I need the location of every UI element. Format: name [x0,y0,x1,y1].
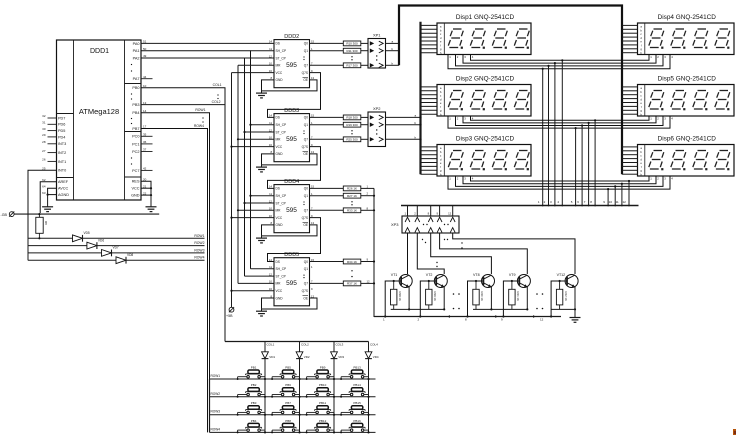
svg-text:ROW2: ROW2 [194,241,204,245]
svg-text:VD4: VD4 [373,355,379,359]
wire base of VT2 to drive rail [419,281,436,318]
wire emitter line VT8-VT9 [473,308,527,310]
svg-text:16: 16 [269,287,273,291]
diode VD8 on ROW4 sense line [28,253,133,264]
svg-text:ROW1: ROW1 [194,234,204,238]
svg-text:ST_CP: ST_CP [276,130,286,134]
resistor R10 300 [310,41,369,46]
svg-text:PB4: PB4 [132,111,139,115]
button PB10 [306,383,336,398]
wire OE pin of DDD2 to ground [262,80,318,91]
svg-text:PB7: PB7 [132,127,139,131]
svg-text:PD5: PD5 [58,129,65,133]
svg-text:VCC: VCC [276,216,283,220]
svg-text:PD7: PD7 [58,116,65,120]
wire AVCC and AGND to ground [47,188,57,196]
svg-text:GND: GND [276,78,284,82]
wire Q7S of DDD4 to DS of DDD5 [268,218,321,262]
wire PB4 ROW1 down to keypad [141,108,210,379]
svg-text:Q0: Q0 [304,42,308,46]
pin names DDD1 left (PD7-INT0, AREF, AVCC, AGND) [42,114,69,197]
shift register DDD5 74HC595 [269,252,315,306]
svg-text:32: 32 [42,114,46,118]
wire GND pin of DDD5 to ground [262,298,275,309]
battery rail -GB [14,213,159,215]
svg-text:12: 12 [269,199,273,203]
svg-text:VT8: VT8 [473,273,480,277]
svg-text:PC2: PC2 [132,150,139,154]
svg-text:R38 1K: R38 1K [398,292,402,301]
svg-text:AVCC: AVCC [58,187,69,191]
svg-text:Q7S: Q7S [302,145,308,149]
svg-text:AREF: AREF [58,180,69,184]
display Disp2 GNQ-2541CD [421,76,532,121]
resistor R19 300 [310,122,369,127]
pin labels XP2 outputs [415,114,417,140]
wire emitter of VT9 [526,287,528,311]
wires digit bus to XP3 top pins [404,206,452,217]
svg-text:COL2: COL2 [301,343,309,347]
button PB16 [340,419,370,434]
button PB9 [306,365,336,380]
keypad row feed lines [210,374,376,432]
svg-text:16: 16 [269,69,273,73]
svg-text:COL1: COL1 [267,343,275,347]
keypad column COL4 with diode VD4 [365,342,379,433]
digit drive rail under transistors [374,315,561,321]
svg-text:COL1: COL1 [213,83,222,87]
ground under DDD5 [256,309,267,316]
svg-text:16: 16 [269,214,273,218]
svg-text:PB6: PB6 [285,383,291,387]
resistor R34 1K [310,258,375,264]
svg-text:SH_CP: SH_CP [276,267,287,271]
svg-text:INT3: INT3 [58,142,66,146]
svg-text:PB11: PB11 [319,401,326,405]
svg-text:COL2: COL2 [212,100,221,104]
svg-text:-GB: -GB [1,213,8,217]
svg-text:R19 300: R19 300 [346,123,358,127]
rail MR to shift registers [237,65,274,283]
svg-text:PB3: PB3 [132,103,139,107]
rail +5V to shift register VCC pins [230,73,274,308]
svg-text:R27 1K: R27 1K [347,194,357,198]
button PB15 [340,401,370,416]
svg-text:Disp4 GNQ-2541CD: Disp4 GNQ-2541CD [658,14,717,21]
svg-text:595: 595 [286,280,297,287]
resistor R26 1K [310,184,375,190]
svg-text:PB1: PB1 [251,365,257,369]
svg-text:595: 595 [286,62,297,69]
svg-text:PB5: PB5 [285,365,291,369]
svg-text:Q7: Q7 [304,138,308,142]
button PB8 [271,419,301,434]
svg-text:VCC: VCC [276,145,283,149]
svg-text:PB4: PB4 [251,419,257,423]
svg-text:R11 300: R11 300 [346,49,357,53]
svg-text:PB0: PB0 [132,86,139,90]
svg-text:PB13: PB13 [353,365,361,369]
svg-text:ATMega128: ATMega128 [79,107,119,116]
svg-text:GND: GND [276,223,284,227]
shift register DDD3 74HC595 [269,108,315,162]
svg-text:R39 1K: R39 1K [433,292,437,301]
keypad column bus from COL1 [225,341,369,343]
shift register DDD2 74HC595 [269,34,315,88]
svg-text:SH_CP: SH_CP [276,49,287,53]
svg-text:595: 595 [286,207,297,214]
svg-text:GND: GND [131,194,140,198]
svg-text:SH_CP: SH_CP [276,194,287,198]
svg-text:10: 10 [609,200,613,204]
svg-text:31: 31 [42,121,46,125]
svg-text:Disp6 GNQ-2541CD: Disp6 GNQ-2541CD [658,136,717,143]
svg-text:Disp2 GNQ-2541CD: Disp2 GNQ-2541CD [456,76,515,83]
svg-text:10: 10 [269,62,273,66]
svg-text:PB9: PB9 [320,365,326,369]
svg-text:ROW1: ROW1 [195,108,205,112]
wire PB3 COL2 [141,94,225,104]
wire digit select verticals 1-4 to bottom bus [538,59,564,206]
svg-text:VD7: VD7 [113,246,119,250]
pin stubs DDD1 left [48,118,57,161]
svg-text:Disp1 GNQ-2541CD: Disp1 GNQ-2541CD [456,14,515,21]
ground at DDD1 analog pins [42,195,53,212]
button PB1 [237,365,267,380]
svg-text:INT2: INT2 [58,151,66,155]
svg-text:28: 28 [42,140,46,144]
pin stubs DDD1 right unconnected (PA7, PC0-PC2, PC7) [141,79,153,171]
svg-text:OE: OE [303,296,308,300]
wire emitter of VT12 [574,287,576,318]
svg-text:595: 595 [286,136,297,143]
svg-text:PB8: PB8 [285,419,291,423]
display Disp4 GNQ-2541CD [622,14,734,59]
svg-text:VD8: VD8 [127,253,133,257]
wire digit select verticals 5-8 to bottom bus [571,119,596,206]
wire OE pin of DDD4 to ground [262,225,318,236]
svg-text:AGND: AGND [58,193,69,197]
ground under DDD3 [256,165,267,172]
display Disp5 GNQ-2541CD [622,76,734,121]
power terminal -GB [1,212,15,217]
wire emitter of VT2 [443,287,445,311]
ground under DDD4 [256,236,267,243]
keypad column COL3 with diode VD3 [331,342,345,433]
svg-text:ROW4: ROW4 [211,427,221,431]
svg-text:11: 11 [269,47,272,51]
svg-text:Q7: Q7 [304,282,308,286]
keypad row verticals [209,379,211,432]
wire digit select lines 1-4 [448,55,670,69]
button PB11 [306,401,336,416]
abbreviation dots DDD2 resistors [351,56,352,60]
wire INT0 to keyboard diode rows [28,170,57,260]
orange mark bottom right [733,429,736,435]
svg-text:VT2: VT2 [426,273,433,277]
button PB6 [271,383,301,398]
resistor R40 1K base-emitter of VT8 [473,280,484,310]
svg-text:Q0: Q0 [304,116,308,120]
wire ROW3 from diode VD7 with net label [112,248,205,253]
svg-text:11: 11 [269,121,272,125]
svg-text:ST_CP: ST_CP [276,56,286,60]
svg-text:ROW1: ROW1 [211,374,221,378]
svg-text:Q1: Q1 [304,194,308,198]
button PB13 [340,365,370,380]
transistor VT1 [391,273,413,288]
svg-text:PD6: PD6 [58,123,65,127]
svg-text:Q0: Q0 [304,187,308,191]
wire digit select lines 9-12 [448,176,670,189]
svg-text:VD2: VD2 [304,355,310,359]
connector XP3 [391,216,459,233]
wire emitter line VT12 [551,308,575,310]
svg-text:29: 29 [42,133,46,137]
wire PA0 to DDD2 DS [141,42,274,44]
svg-text:VCC: VCC [131,187,139,191]
svg-text:ROW3: ROW3 [194,248,204,252]
button PB7 [271,401,301,416]
svg-text:PD4: PD4 [58,135,65,139]
svg-text:12: 12 [269,272,273,276]
svg-text:OE: OE [303,78,308,82]
wire GND pin of DDD3 to ground [262,154,275,165]
button PB3 [237,401,267,416]
svg-text:ROW3: ROW3 [211,410,221,414]
wire GND pin of DDD4 to ground [262,225,275,236]
diode VD7 on ROW3 sense line [28,246,119,257]
wire PB7 ROW4 down to keypad [141,117,208,432]
svg-text:VT1: VT1 [391,273,398,277]
svg-text:11: 11 [269,265,272,269]
wire PB0 COL1 down to keypad [141,83,225,341]
keypad column COL1 with diode VD1 [262,342,276,433]
svg-text:R37 1K: R37 1K [347,282,357,286]
wire base of VT8 to drive rail [466,281,483,318]
svg-text:11: 11 [616,200,619,204]
wire base of VT12 to drive rail [550,281,567,318]
svg-text:12: 12 [269,54,273,58]
diode VD6 on ROW2 sense line [28,238,104,249]
svg-text:Disp3 GNQ-2541CD: Disp3 GNQ-2541CD [456,136,515,143]
digit select bottom bus [401,205,639,207]
wire digit select lines 5-8 [448,116,670,128]
resistor R8 10K pull-up [36,213,48,239]
svg-text:VCC: VCC [276,71,283,75]
svg-text:ROW4: ROW4 [194,256,204,260]
segment bus left display column [419,22,421,175]
svg-text:14: 14 [269,40,273,44]
svg-text:10: 10 [269,136,273,140]
svg-text:XP1: XP1 [373,33,381,38]
button PB14 [340,383,370,398]
abbreviation dots DDD3 resistors [351,130,352,134]
resistor R27 1K [310,192,375,198]
svg-text:PA0: PA0 [133,42,140,46]
svg-text:DS: DS [276,187,280,191]
svg-text:R17 300: R17 300 [346,64,358,68]
button PB12 [306,419,336,434]
resistor R11 300 [310,48,369,53]
svg-text:R8: R8 [44,221,48,225]
svg-text:GND: GND [276,296,284,300]
svg-text:26: 26 [42,158,46,162]
svg-text:12: 12 [448,212,452,216]
wires XP3 bottom pins to transistor collectors [408,233,576,274]
transistor VT12 [557,273,579,288]
svg-text:12: 12 [367,279,371,283]
svg-text:R40 1K: R40 1K [480,292,484,301]
wire OE pin of DDD5 to ground [262,298,318,309]
button PB5 [271,365,301,380]
svg-text:OE: OE [303,152,308,156]
wire emitter line VT1-VT2 [391,308,445,310]
shift register DDD4 74HC595 [269,179,315,233]
svg-text:DDD1: DDD1 [90,48,109,55]
svg-text:PB3: PB3 [251,401,257,405]
svg-text:R26 1K: R26 1K [347,187,357,191]
resistor R18 300 [310,115,369,120]
abbreviation dots DDD5 resistors [351,270,352,277]
abbreviation dots between transistor sections [453,293,544,309]
svg-text:Q1: Q1 [304,49,308,53]
resistor R42 1K base-emitter of VT12 [556,280,567,310]
transistor VT8 [473,273,495,288]
wire GND pin of DDD2 to ground [262,80,275,91]
display Disp6 GNQ-2541CD [622,136,734,181]
wire digit drive bus down to transistor rail [373,188,386,316]
svg-text:VD5: VD5 [84,231,90,235]
svg-text:63: 63 [42,191,46,195]
wire Q7S of DDD3 to DS of DDD4 [268,147,321,189]
svg-text:SH_CP: SH_CP [276,123,287,127]
pin labels XP1 outputs [392,40,394,66]
svg-text:R25 300: R25 300 [346,138,358,142]
svg-text:R34 1K: R34 1K [347,260,357,264]
svg-text:PB14: PB14 [353,383,361,387]
svg-text:ST_CP: ST_CP [276,274,286,278]
svg-text:12: 12 [540,317,544,321]
resistor R41 1K base-emitter of VT9 [509,280,520,310]
svg-text:27: 27 [42,149,46,153]
microcontroller DDD1 ATMega128 body [57,40,142,200]
wire ROW1 from diode VD5 with net label [83,234,205,239]
svg-text:PA7: PA7 [133,77,140,81]
wire Q7S of DDD2 to DS of DDD3 [268,73,321,118]
power terminal +5B [226,307,234,318]
svg-text:ST_CP: ST_CP [276,201,286,205]
display Disp3 GNQ-2541CD [421,136,532,181]
svg-text:RES: RES [132,180,140,184]
transistor VT2 [426,273,448,288]
svg-text:MR: MR [276,209,282,213]
svg-text:R33 1K: R33 1K [347,209,357,213]
keypad column COL2 with diode VD2 [296,342,310,433]
connector XP2 [368,106,421,147]
wire keyboard interrupt common vertical [27,238,29,260]
wire AREF down to -GB rail [40,182,56,213]
svg-text:OE: OE [303,223,308,227]
svg-text:ROW4: ROW4 [194,124,204,128]
svg-text:Q7S: Q7S [302,216,308,220]
svg-text:MR: MR [276,282,282,286]
svg-text:64: 64 [42,184,46,188]
abbreviation dots DDD4 resistors [351,201,352,205]
svg-text:VD3: VD3 [338,355,344,359]
svg-text:VCC: VCC [276,289,283,293]
svg-text:VT9: VT9 [509,273,516,277]
svg-text:R41 1K: R41 1K [516,292,520,301]
wire OE pin of DDD3 to ground [262,154,318,165]
segment bus from XP1 up and across top [399,6,622,175]
svg-text:10: 10 [269,280,273,284]
svg-text:ROW2: ROW2 [211,392,221,396]
svg-text:PB10: PB10 [319,383,327,387]
svg-text:Q1: Q1 [304,123,308,127]
wire emitter of VT8 [490,287,492,311]
svg-text:DS: DS [276,116,280,120]
svg-text:PC1: PC1 [132,142,139,146]
ground under DDD2 [256,91,267,98]
svg-text:PC7: PC7 [132,169,139,173]
svg-text:PB2: PB2 [251,383,257,387]
wire ROW4 from diode VD8 with net label [126,256,205,261]
svg-text:XP2: XP2 [373,106,381,111]
svg-text:GND: GND [276,152,284,156]
svg-text:PB12: PB12 [319,419,327,423]
svg-text:Q0: Q0 [304,260,308,264]
svg-text:10: 10 [269,207,273,211]
svg-text:PA1: PA1 [133,49,140,53]
resistor R17 300 [310,63,369,68]
svg-text:COL3: COL3 [336,343,344,347]
svg-text:DDD2: DDD2 [284,34,299,40]
wire digit select verticals 9-12 to bottom bus [603,180,630,207]
resistor R33 1K [310,206,375,212]
svg-text:Q7: Q7 [304,209,308,213]
connector XP1 [368,33,399,69]
svg-text:INT1: INT1 [58,160,66,164]
svg-text:INT0: INT0 [58,169,66,173]
wire emitter of VT1 [408,287,410,311]
wire base of VT1 to drive rail [384,281,401,318]
resistor R38 1K base-emitter of VT1 [391,280,402,310]
diode VD5 on ROW1 sense line [28,231,90,242]
resistor R39 1K base-emitter of VT2 [426,280,437,310]
button PB2 [237,383,267,398]
ground at DDD1 supply pins [146,195,157,212]
svg-text:MR: MR [276,64,282,68]
resistor R25 300 [310,137,369,142]
rail ST_CP from PA2 to shift registers [141,58,274,276]
ground at transistor emitters [570,309,581,322]
svg-text:PC0: PC0 [132,135,139,139]
svg-text:MR: MR [276,138,282,142]
display Disp1 GNQ-2541CD [421,14,532,59]
svg-text:Q7S: Q7S [302,71,308,75]
rail SH_CP from PA1 to shift registers [141,51,274,269]
wire base of VT9 to drive rail [502,281,519,318]
svg-text:VD1: VD1 [269,355,275,359]
svg-text:PA2: PA2 [133,56,140,60]
svg-text:R10 300: R10 300 [346,42,358,46]
button PB4 [237,419,267,434]
svg-text:PB15: PB15 [353,401,361,405]
transistor VT9 [509,273,531,288]
svg-text:Disp5 GNQ-2541CD: Disp5 GNQ-2541CD [658,76,717,83]
wire ROW2 from diode VD6 with net label [97,241,205,246]
